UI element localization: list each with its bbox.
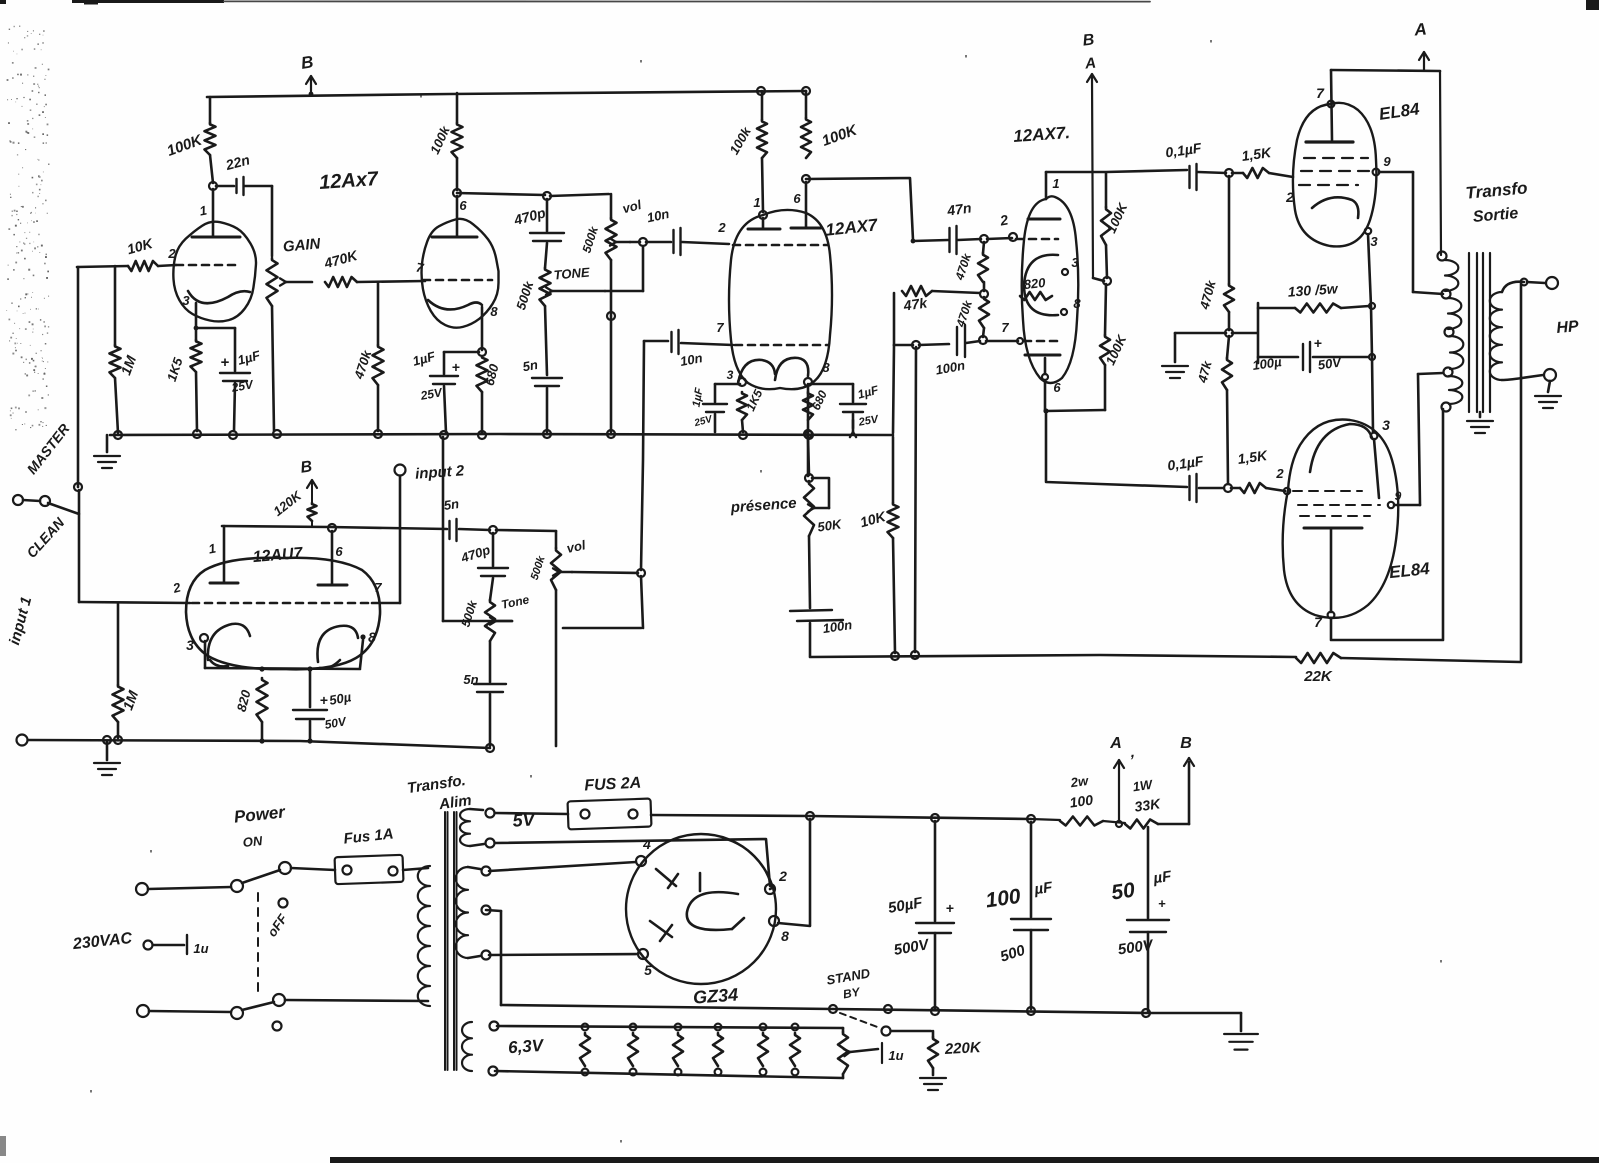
svg-text:9: 9: [1395, 489, 1402, 503]
svg-text:A: A: [1083, 55, 1097, 73]
svg-text:12Ax7: 12Ax7: [318, 168, 379, 194]
svg-text:3: 3: [1370, 234, 1378, 249]
svg-text:1u: 1u: [888, 1048, 903, 1063]
svg-text:2: 2: [167, 246, 176, 261]
svg-text:TONE: TONE: [553, 264, 590, 282]
svg-text:,: ,: [1130, 744, 1135, 761]
svg-text:B: B: [1180, 735, 1192, 752]
svg-text:6: 6: [1053, 380, 1061, 395]
svg-text:+: +: [320, 692, 328, 708]
svg-text:FUS 2A: FUS 2A: [584, 775, 642, 795]
svg-text:HP: HP: [1556, 318, 1580, 337]
svg-text:820: 820: [1023, 275, 1047, 292]
svg-text:+: +: [221, 354, 230, 371]
svg-text:GAIN: GAIN: [282, 235, 322, 255]
svg-text:5n: 5n: [521, 357, 539, 374]
svg-text:+: +: [1314, 335, 1322, 351]
svg-text:5n: 5n: [463, 672, 478, 687]
svg-text:7: 7: [1314, 614, 1323, 630]
svg-text:2: 2: [1275, 466, 1284, 481]
svg-text:1u: 1u: [193, 941, 208, 956]
svg-text:8: 8: [490, 304, 498, 319]
svg-text:input 2: input 2: [415, 462, 466, 482]
svg-text:1: 1: [1052, 176, 1059, 191]
svg-text:B: B: [300, 52, 315, 73]
svg-text:8: 8: [781, 928, 789, 944]
svg-text:7: 7: [374, 580, 382, 595]
svg-text:8: 8: [1073, 296, 1081, 311]
svg-text:3: 3: [1071, 255, 1079, 270]
svg-text:7: 7: [1316, 85, 1325, 101]
svg-text:+: +: [946, 900, 954, 916]
svg-text:3: 3: [182, 293, 190, 308]
svg-text:6: 6: [335, 544, 343, 559]
svg-text:6: 6: [793, 191, 801, 206]
svg-text:22K: 22K: [1303, 668, 1333, 685]
svg-text:B: B: [1082, 31, 1095, 49]
svg-text:3: 3: [727, 368, 734, 382]
svg-text:50: 50: [1110, 879, 1137, 905]
svg-text:+: +: [1158, 896, 1166, 911]
svg-text:A: A: [1109, 735, 1122, 752]
svg-text:GZ34: GZ34: [692, 984, 738, 1007]
svg-text:12AX7.: 12AX7.: [1013, 123, 1071, 146]
svg-text:2w: 2w: [1069, 773, 1090, 791]
svg-text:7: 7: [1001, 320, 1009, 335]
svg-text:3: 3: [186, 637, 194, 653]
svg-text:2: 2: [1285, 189, 1294, 205]
svg-text:8: 8: [368, 629, 376, 645]
svg-text:+: +: [452, 359, 460, 375]
svg-text:7: 7: [716, 320, 724, 335]
svg-text:µF: µF: [1032, 879, 1054, 899]
svg-text:5n: 5n: [443, 496, 460, 513]
svg-text:6,3V: 6,3V: [508, 1036, 546, 1058]
svg-text:5: 5: [644, 962, 652, 978]
svg-text:1: 1: [753, 195, 760, 210]
svg-text:µF: µF: [1151, 868, 1173, 888]
svg-text:2: 2: [717, 220, 726, 235]
svg-text:4: 4: [642, 836, 651, 852]
svg-text:3: 3: [1382, 417, 1390, 433]
svg-text:9: 9: [1383, 154, 1391, 169]
svg-text:100: 100: [984, 885, 1022, 913]
svg-text:2: 2: [778, 868, 787, 884]
svg-text:6: 6: [459, 198, 467, 213]
svg-text:1W: 1W: [1132, 777, 1155, 795]
svg-text:8: 8: [822, 360, 830, 375]
svg-text:220K: 220K: [943, 1039, 982, 1058]
svg-text:A: A: [1413, 20, 1428, 40]
svg-text:100: 100: [1069, 791, 1095, 810]
svg-text:ON: ON: [242, 833, 264, 850]
svg-text:B: B: [299, 458, 313, 476]
